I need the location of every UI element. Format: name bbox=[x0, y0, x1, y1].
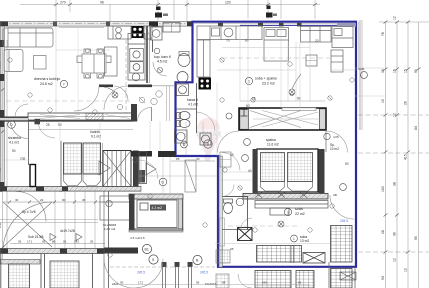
svg-text:28: 28 bbox=[381, 230, 385, 234]
wardrobe strip along corridor bbox=[28, 113, 133, 120]
ceiling dashed line living bbox=[6, 100, 130, 102]
living bottom wall line bbox=[0, 120, 133, 122]
dim line y202 bbox=[3, 201, 100, 203]
window sill lines top-left bbox=[7, 27, 104, 29]
svg-text:soba + spalne: soba + spalne bbox=[255, 77, 277, 81]
blue window band second line bbox=[240, 24, 355, 26]
svg-text:22 m2: 22 m2 bbox=[295, 212, 305, 216]
svg-text:4.05: 4.05 bbox=[333, 135, 339, 139]
left inner room rect bbox=[100, 196, 134, 220]
svg-text:05: 05 bbox=[42, 240, 46, 244]
stairs grids bottom bbox=[9, 264, 30, 288]
kitchen zone dashed bbox=[125, 40, 127, 117]
bedroom label bbox=[295, 207, 305, 216]
section marker glyphs A bbox=[155, 7, 168, 18]
stair wall dark vertical bbox=[133, 151, 139, 189]
svg-text:10 m2: 10 m2 bbox=[330, 147, 339, 151]
svg-text:242: 242 bbox=[262, 281, 267, 285]
bedroom window frame bbox=[257, 149, 318, 192]
bath2 label bbox=[187, 98, 199, 107]
top tick marks bbox=[54, 3, 317, 6]
svg-text:4.1 m2: 4.1 m2 bbox=[9, 141, 19, 145]
corridor circled letter bbox=[159, 178, 167, 186]
circled num on balloon bbox=[204, 140, 212, 148]
svg-text:spalna: spalna bbox=[266, 138, 276, 142]
svg-text:15: 15 bbox=[404, 69, 408, 73]
entry door arcs bbox=[114, 86, 129, 101]
circled room number 1 bbox=[60, 80, 67, 87]
corridor lower edge line bbox=[28, 129, 133, 131]
room diagonal + arcs (double door) bbox=[3, 192, 52, 252]
svg-text:4.5 m2: 4.5 m2 bbox=[157, 60, 167, 64]
corridor bottom wall band bbox=[0, 187, 141, 192]
wall right of blue bbox=[359, 20, 361, 130]
elevator shaft bbox=[139, 152, 147, 184]
svg-text:38: 38 bbox=[381, 69, 385, 73]
landing step lines bbox=[0, 191, 98, 248]
svg-text:11.6 m2: 11.6 m2 bbox=[267, 143, 279, 147]
apt2 kitchen counter top bbox=[197, 26, 262, 40]
top exterior wall band left part bbox=[0, 22, 193, 27]
dim line above wardrobe bbox=[240, 100, 325, 102]
stair block bbox=[103, 151, 131, 187]
dashed corridor line bottom bbox=[110, 266, 215, 268]
svg-text:85: 85 bbox=[176, 157, 180, 161]
stair top dark wall segments bbox=[131, 151, 152, 157]
grid panels bbox=[261, 153, 285, 182]
bath1 tub/bidet bbox=[177, 72, 188, 83]
sauna right wall band bbox=[179, 199, 184, 230]
stove black left bbox=[132, 26, 144, 38]
balcony window grid panels bbox=[61, 141, 103, 192]
section marker glyphs B bbox=[266, 6, 277, 18]
sauna left wall dark bbox=[129, 194, 135, 230]
dining table + chairs bbox=[77, 49, 111, 78]
right dim ticks bbox=[384, 21, 421, 254]
door triangles corridor bbox=[99, 161, 110, 175]
dim texts in bedroom bbox=[230, 153, 349, 173]
bottom dim row bbox=[112, 284, 310, 286]
fridge bbox=[144, 26, 152, 39]
dark wall corner sauna bottom bbox=[104, 248, 138, 254]
svg-text:30: 30 bbox=[196, 157, 200, 161]
svg-text:9.1 m2: 9.1 m2 bbox=[91, 135, 101, 139]
svg-text:1: 1 bbox=[248, 79, 250, 83]
left dim texts mid bbox=[12, 123, 62, 161]
svg-text:SOB: SOB bbox=[358, 67, 364, 71]
blue boundary main polyline bbox=[176, 22, 357, 267]
svg-text:12: 12 bbox=[393, 16, 397, 20]
shelf along central wall bbox=[220, 218, 225, 246]
svg-text:171: 171 bbox=[27, 240, 32, 244]
right dim rotated texts bbox=[381, 16, 418, 280]
svg-text:24.6 m2: 24.6 m2 bbox=[40, 82, 53, 86]
svg-text:60x60x5: 60x60x5 bbox=[205, 282, 217, 286]
left wall band fill bbox=[0, 117, 28, 121]
corridor guide lines mid bbox=[139, 122, 217, 194]
kitchen/bath partition wall bbox=[146, 26, 148, 83]
coffee table bbox=[34, 56, 47, 70]
svg-text:270: 270 bbox=[60, 1, 66, 5]
vertical wall x108 bbox=[108, 191, 110, 288]
left small room label bbox=[8, 136, 21, 145]
svg-text:120: 120 bbox=[225, 1, 231, 5]
bed grid south bbox=[257, 246, 302, 263]
svg-text:3: 3 bbox=[207, 143, 209, 147]
wall segment right bottom bbox=[354, 267, 356, 288]
svg-text:05: 05 bbox=[230, 247, 234, 251]
armchair bbox=[4, 50, 23, 72]
top dim texts bbox=[60, 1, 231, 5]
svg-text:30: 30 bbox=[15, 198, 19, 202]
svg-text:1: 1 bbox=[287, 210, 289, 214]
small dark mark bbox=[35, 119, 41, 125]
svg-text:163: 163 bbox=[381, 186, 385, 192]
svg-text:240: 240 bbox=[0, 222, 2, 228]
svg-text:Sp 4.7x/8: Sp 4.7x/8 bbox=[22, 210, 36, 214]
WC walls bbox=[222, 196, 248, 198]
corridor closet bbox=[185, 160, 196, 192]
door arc into left room bbox=[15, 104, 28, 117]
stove black apt2 bbox=[199, 78, 212, 90]
svg-text:4.2 m2: 4.2 m2 bbox=[152, 206, 162, 210]
svg-text:B: B bbox=[183, 143, 185, 147]
svg-text:kop. barv K: kop. barv K bbox=[154, 55, 172, 59]
apt2 table bbox=[306, 55, 317, 66]
svg-text:38: 38 bbox=[393, 182, 397, 186]
svg-text:05: 05 bbox=[90, 240, 94, 244]
svg-text:barva K: barva K bbox=[187, 98, 199, 102]
svg-text:05: 05 bbox=[298, 281, 302, 285]
X-box dark bbox=[238, 228, 253, 241]
inner dim chain bbox=[10, 243, 105, 245]
left wall dark posts bbox=[0, 40, 5, 191]
svg-text:dnevna s kuhinjo: dnevna s kuhinjo bbox=[34, 77, 60, 81]
bath tile grid bbox=[216, 250, 230, 263]
pendant light symbols bbox=[104, 67, 301, 227]
svg-text:94: 94 bbox=[381, 276, 385, 280]
svg-text:1.04 m2: 1.04 m2 bbox=[104, 227, 115, 231]
svg-text:235: 235 bbox=[20, 157, 26, 161]
svg-text:hodnik: hodnik bbox=[90, 130, 100, 134]
svg-text:26: 26 bbox=[404, 101, 408, 105]
svg-text:24: 24 bbox=[40, 198, 44, 202]
svg-text:25: 25 bbox=[46, 123, 50, 127]
svg-text:05: 05 bbox=[120, 281, 124, 285]
dark wall left of window bbox=[253, 149, 258, 193]
bath1 door arc bbox=[153, 62, 167, 76]
svg-text:15: 15 bbox=[381, 99, 385, 103]
apt2 living label bbox=[255, 77, 277, 86]
partition pair bottom bbox=[290, 245, 292, 263]
apt2 sofa horizontal bbox=[301, 27, 332, 43]
svg-text:171: 171 bbox=[138, 281, 143, 285]
reference line x56 bbox=[55, 26, 57, 117]
dark wall block right of wardrobe bbox=[131, 104, 137, 122]
svg-text:20: 20 bbox=[315, 39, 319, 43]
right dashed reference lines bbox=[358, 115, 429, 252]
svg-text:88: 88 bbox=[222, 281, 226, 285]
svg-text:90: 90 bbox=[345, 162, 349, 166]
top wall band right part (window posts under blue) bbox=[193, 23, 356, 27]
circled number bedroom2 bbox=[242, 155, 249, 162]
svg-text:AB: AB bbox=[333, 193, 337, 197]
doors beside wardrobe bbox=[218, 131, 240, 153]
room labels bbox=[22, 210, 75, 239]
circled numbers bottom bbox=[142, 244, 151, 253]
svg-text:shramba: shramba bbox=[8, 136, 21, 140]
apt2 right bed bbox=[331, 27, 353, 73]
svg-text:70: 70 bbox=[226, 39, 230, 43]
spalnica label bbox=[266, 138, 279, 147]
svg-text:95: 95 bbox=[414, 69, 418, 73]
circled symbol left bbox=[8, 121, 16, 129]
room band top bbox=[129, 194, 183, 199]
svg-text:95: 95 bbox=[414, 236, 418, 240]
soba 13 label bbox=[300, 235, 309, 243]
svg-text:88: 88 bbox=[52, 240, 56, 244]
extra door arcs density bbox=[222, 153, 240, 171]
left room walls bbox=[28, 121, 30, 165]
svg-text:5: 5 bbox=[152, 258, 154, 262]
svg-text:12: 12 bbox=[393, 113, 397, 117]
svg-text:B1: B1 bbox=[145, 248, 149, 252]
svg-text:05: 05 bbox=[18, 240, 22, 244]
desk strip below wall bbox=[255, 201, 328, 216]
svg-text:245.5: 245.5 bbox=[340, 219, 348, 223]
small electric symbols bbox=[117, 91, 162, 110]
door triangles bottom bbox=[50, 234, 56, 241]
kitchen top counter bbox=[108, 26, 131, 39]
door arc corridor right bbox=[138, 108, 152, 122]
svg-text:96: 96 bbox=[100, 1, 104, 5]
dashed ceiling lines apt2 bbox=[222, 58, 330, 226]
bottom scattered texts bbox=[112, 236, 234, 286]
sofa bbox=[3, 28, 53, 47]
living room label bbox=[34, 77, 60, 86]
wardrobe with X bbox=[239, 108, 326, 130]
svg-text:13 m2: 13 m2 bbox=[300, 239, 309, 243]
door arcs WC bbox=[222, 185, 234, 197]
balcony grid below blue bbox=[255, 271, 291, 288]
sauna bottom wall bbox=[129, 229, 183, 231]
svg-text:1: 1 bbox=[293, 237, 295, 241]
svg-text:78: 78 bbox=[381, 32, 385, 36]
svg-text:Sob 15.3/8: Sob 15.3/8 bbox=[28, 235, 44, 239]
circled letter at blue corner bbox=[181, 141, 188, 148]
bedroom top wall band bbox=[243, 194, 328, 200]
svg-text:12: 12 bbox=[393, 258, 397, 262]
apt2 living guide lines bbox=[217, 26, 356, 101]
svg-text:28.5: 28.5 bbox=[112, 282, 118, 286]
kitchen island bbox=[105, 47, 118, 76]
X-box bed right bbox=[303, 253, 325, 264]
scattered socket symbols bbox=[8, 58, 354, 257]
door arcs bottom bbox=[104, 258, 134, 288]
column left dark bbox=[30, 165, 36, 187]
watermark balloon (faint) bbox=[196, 118, 222, 161]
svg-text:12: 12 bbox=[404, 268, 408, 272]
svg-text:245.5: 245.5 bbox=[137, 271, 145, 275]
svg-text:4.1 m2: 4.1 m2 bbox=[188, 103, 198, 107]
right column grids bbox=[331, 226, 353, 263]
left wall verticals bbox=[1, 21, 4, 192]
svg-text:16: 16 bbox=[393, 69, 397, 73]
sauna dark label bbox=[150, 205, 166, 211]
corridor label bbox=[90, 130, 101, 139]
apt2 kitchen counter vertical bbox=[197, 40, 210, 77]
room label left bbox=[103, 223, 116, 231]
left dim ticks + texts bbox=[1, 41, 5, 249]
svg-text:05: 05 bbox=[63, 240, 67, 244]
svg-text:40: 40 bbox=[248, 169, 252, 173]
left dimension verticals bbox=[3, 26, 8, 264]
svg-text:84: 84 bbox=[414, 126, 418, 130]
mid bath walls bbox=[196, 83, 198, 133]
second band bbox=[0, 260, 40, 265]
kitchen label bbox=[154, 55, 172, 64]
bottom corridor wall band bbox=[0, 249, 104, 254]
svg-text:90: 90 bbox=[62, 198, 66, 202]
svg-text:36: 36 bbox=[82, 198, 86, 202]
svg-text:7: 7 bbox=[63, 82, 65, 86]
bath1 washer bbox=[151, 27, 163, 40]
WC fixtures bbox=[224, 198, 244, 213]
svg-text:4.5 m2/1.6: 4.5 m2/1.6 bbox=[130, 236, 145, 240]
mid bath fixtures bbox=[175, 84, 212, 145]
svg-text:242: 242 bbox=[74, 240, 79, 244]
dark wall right of window bbox=[319, 149, 325, 193]
svg-text:soba: soba bbox=[295, 207, 303, 211]
svg-text:O: O bbox=[10, 123, 13, 127]
WC top cabinet bbox=[220, 152, 231, 167]
kitchen tall counter with sinks bbox=[128, 34, 145, 81]
entry wall segments bbox=[99, 85, 113, 88]
blue elevation texts bbox=[137, 219, 348, 275]
sauna bench rect bbox=[137, 200, 177, 228]
top dimension line bbox=[20, 0, 320, 21]
right dimension verticals bbox=[362, 20, 429, 288]
svg-text:4x19.7x28: 4x19.7x28 bbox=[60, 229, 75, 233]
svg-text:36: 36 bbox=[393, 232, 397, 236]
right side room label bbox=[330, 143, 339, 151]
svg-text:05: 05 bbox=[196, 281, 200, 285]
bottom-left walls bbox=[1, 191, 104, 288]
svg-text:245.5: 245.5 bbox=[200, 271, 208, 275]
bath1 toilet bbox=[178, 54, 190, 67]
svg-text:415: 415 bbox=[404, 154, 408, 160]
svg-text:23.2 m2: 23.2 m2 bbox=[262, 82, 275, 86]
svg-text:90: 90 bbox=[297, 97, 301, 101]
comb door frames bottom center bbox=[162, 262, 193, 288]
central wall band x218 bbox=[219, 156, 222, 267]
apt2 bed vertical bbox=[264, 28, 289, 62]
circled symbol right bbox=[361, 72, 368, 79]
svg-text:90: 90 bbox=[12, 149, 16, 153]
